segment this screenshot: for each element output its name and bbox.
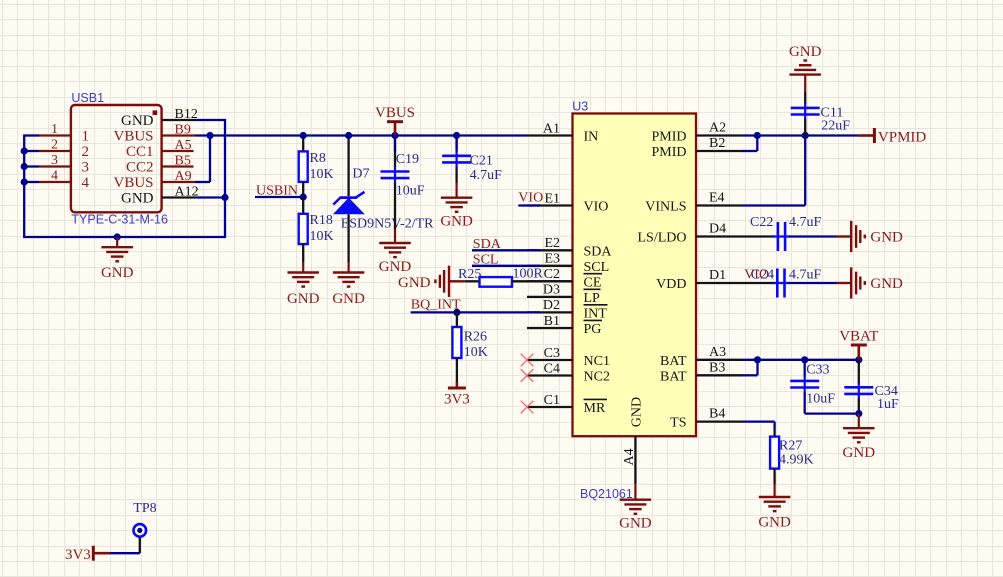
U3 pin name SDA <box>584 244 613 259</box>
net label SCL <box>473 253 499 268</box>
svg-text:U3: U3 <box>572 100 588 114</box>
svg-text:VBUS: VBUS <box>375 105 415 121</box>
svg-text:R27: R27 <box>779 438 802 453</box>
U3 pin A4 <box>622 436 637 484</box>
svg-text:10uF: 10uF <box>396 183 425 198</box>
U3 pin C1 <box>527 393 573 408</box>
wire VBUS rail to C19 <box>394 136 396 152</box>
wire PMID to E4 riser <box>742 136 805 206</box>
svg-text:D1: D1 <box>709 268 726 283</box>
svg-text:INT: INT <box>584 306 608 321</box>
U3 pin name VIO <box>584 200 609 215</box>
svg-text:1: 1 <box>51 122 58 137</box>
ground R27 <box>758 484 791 531</box>
resistor R8 <box>299 136 334 198</box>
svg-text:R25: R25 <box>458 267 481 282</box>
U3 pin A1 <box>527 121 573 136</box>
wire B3 to BAT rail <box>742 360 758 376</box>
svg-text:TS: TS <box>670 416 686 431</box>
net label SDA <box>473 237 502 252</box>
USB1 pin B5 <box>162 154 194 169</box>
svg-text:C33: C33 <box>806 363 829 378</box>
junction BQ_INT R26 <box>453 309 460 316</box>
svg-text:LS/LDO: LS/LDO <box>638 231 687 246</box>
ground D7 <box>332 262 365 307</box>
wire left bus vertical <box>23 136 25 238</box>
svg-text:GND: GND <box>630 397 645 427</box>
svg-text:D4: D4 <box>709 222 726 237</box>
svg-text:MR: MR <box>584 401 606 416</box>
USB1 pin B9 <box>162 123 195 138</box>
no-connect C4 <box>521 369 534 382</box>
ground C22 (right) <box>837 221 904 252</box>
junction B3 BAT rail <box>754 356 761 363</box>
svg-text:3: 3 <box>82 160 90 176</box>
capacitor C33 10uF <box>790 360 835 414</box>
wire pin1 to bus <box>23 134 39 136</box>
U3 pin E3 <box>527 252 573 267</box>
U3 pin name MR <box>584 399 608 416</box>
svg-text:10K: 10K <box>464 345 488 360</box>
svg-text:VPMID: VPMID <box>878 130 927 146</box>
capacitor C19 <box>381 136 425 230</box>
U3 pin name GND rotated <box>630 397 645 427</box>
svg-text:4.7uF: 4.7uF <box>789 215 822 230</box>
svg-text:22uF: 22uF <box>821 119 850 134</box>
svg-text:D2: D2 <box>543 298 560 313</box>
ground C21 <box>440 183 473 229</box>
svg-text:GND: GND <box>440 214 473 230</box>
ground R25 (left) <box>398 266 465 297</box>
capacitor C21 <box>442 136 502 184</box>
U3 pin name VINLS <box>645 200 686 215</box>
svg-text:VINLS: VINLS <box>645 200 686 215</box>
power port 3V3 (TP8) <box>65 546 110 564</box>
svg-text:3: 3 <box>51 153 58 168</box>
USB1 pin A12 <box>162 185 199 200</box>
no-connect C3 <box>521 354 534 367</box>
junction PMID C11 <box>802 132 809 139</box>
svg-text:C4: C4 <box>544 361 560 376</box>
svg-text:10uF: 10uF <box>806 392 835 407</box>
svg-text:VBAT: VBAT <box>839 329 878 345</box>
wire B12 to riser <box>195 119 225 121</box>
U3 pin A3 <box>696 345 742 360</box>
ground C24 (right) <box>837 267 904 298</box>
junction pin4 bus <box>21 178 28 185</box>
U3 pin C2 <box>527 267 573 282</box>
wire VIO to E1 <box>518 204 540 206</box>
USB1 pin 4 <box>39 169 71 184</box>
svg-text:C1: C1 <box>544 393 560 408</box>
svg-text:VIO: VIO <box>518 190 543 205</box>
svg-text:3V3: 3V3 <box>65 547 91 563</box>
wire BQ_INT to D2 <box>411 311 540 313</box>
svg-text:R26: R26 <box>464 330 487 345</box>
junction C34 BAT rail <box>855 356 862 363</box>
svg-text:E1: E1 <box>544 191 560 206</box>
svg-text:GND: GND <box>379 259 412 275</box>
diode D7 ESD9N5V-2/TR <box>333 136 434 263</box>
svg-text:VDD: VDD <box>656 277 686 292</box>
svg-text:CC1: CC1 <box>126 144 154 160</box>
ground C11 (up) <box>789 44 822 91</box>
svg-text:1: 1 <box>82 129 90 145</box>
svg-text:SCL: SCL <box>584 260 610 275</box>
wire A12 to riser <box>196 196 226 198</box>
svg-text:BQ_INT: BQ_INT <box>411 298 461 313</box>
U3 pin B2 <box>696 136 742 151</box>
svg-text:LP: LP <box>584 291 601 306</box>
U3 pin name INT <box>584 305 608 322</box>
svg-text:D7: D7 <box>352 166 369 181</box>
svg-text:A9: A9 <box>175 169 192 184</box>
U3 pin name TS <box>670 416 686 431</box>
svg-text:4.99K: 4.99K <box>779 452 814 467</box>
net label VIO <box>518 190 543 205</box>
power port VBAT <box>839 329 878 360</box>
svg-text:NC2: NC2 <box>584 370 610 385</box>
wire pin2 to bus <box>24 150 39 152</box>
junction B2 A2 rail <box>754 132 761 139</box>
U3 pin name LS/LDO <box>638 231 687 246</box>
USB1 pin name GND (A12) <box>121 191 154 207</box>
USB1 pin name CC2 (B5) <box>126 160 154 176</box>
net label USBIN <box>256 184 298 199</box>
svg-text:GND: GND <box>287 291 320 307</box>
svg-text:4: 4 <box>51 169 58 184</box>
svg-text:C24: C24 <box>751 268 774 283</box>
wire pin4 to bus <box>24 181 39 183</box>
svg-text:100R: 100R <box>513 267 544 282</box>
svg-text:GND: GND <box>101 265 134 281</box>
svg-text:PMID: PMID <box>651 145 686 160</box>
IC U3 designator <box>572 100 588 114</box>
USB1 pin name 3 <box>82 160 90 176</box>
svg-text:B2: B2 <box>709 136 725 151</box>
svg-text:TYPE-C-31-M-16: TYPE-C-31-M-16 <box>71 213 168 227</box>
svg-text:CE: CE <box>584 275 602 290</box>
junction A12 riser <box>221 194 228 201</box>
svg-text:GND: GND <box>789 44 822 60</box>
svg-text:GND: GND <box>121 113 154 129</box>
U3 pin name PMID 1 <box>651 130 686 145</box>
connector USB1 value TYPE-C-31-M-16 <box>71 213 168 227</box>
svg-text:IN: IN <box>584 130 599 145</box>
svg-text:C22: C22 <box>750 215 773 230</box>
USB1 pin name 4 <box>82 175 90 191</box>
ground USB1 <box>101 237 134 281</box>
svg-text:ESD9N5V-2/TR: ESD9N5V-2/TR <box>341 216 434 231</box>
U3 pin D1 <box>696 268 742 283</box>
USB1 pin A9 <box>162 169 195 184</box>
svg-text:A5: A5 <box>175 138 192 153</box>
U3 pin name BAT 1 <box>660 354 687 369</box>
svg-text:B3: B3 <box>709 360 725 375</box>
U3 pin B1 <box>527 314 573 329</box>
svg-text:E2: E2 <box>544 236 560 251</box>
svg-text:TP8: TP8 <box>133 501 156 516</box>
svg-text:4: 4 <box>82 175 90 191</box>
power port VBUS <box>375 105 415 135</box>
wire SCL to E3 <box>472 265 540 267</box>
svg-text:R18: R18 <box>310 213 333 228</box>
wire TP8 to 3V3 <box>110 552 140 554</box>
U3 pin B3 <box>696 360 742 375</box>
wire PMID rail <box>742 134 859 136</box>
junction USBIN R8 R18 <box>300 193 307 200</box>
svg-text:GND: GND <box>843 445 876 461</box>
wire VBUS rail to C21 <box>455 136 457 151</box>
U3 pin name LP <box>584 289 601 306</box>
power port 3V3 (R26) <box>444 382 470 408</box>
junction pin2 bus <box>21 147 28 154</box>
svg-text:10K: 10K <box>310 229 334 244</box>
junction B9 riser <box>206 132 213 139</box>
svg-text:A3: A3 <box>709 345 726 360</box>
svg-text:GND: GND <box>332 291 365 307</box>
resistor R26 <box>452 312 487 382</box>
U3 pin E2 <box>527 236 573 251</box>
connector USB1 body TYPE-C-31-M-16 <box>71 105 162 212</box>
svg-text:PG: PG <box>584 322 602 337</box>
svg-text:A12: A12 <box>175 185 199 200</box>
USB1 pin name GND (B12) <box>121 113 154 129</box>
junction pin3 bus <box>21 163 28 170</box>
svg-text:A4: A4 <box>622 448 637 465</box>
wire USBIN <box>255 196 303 198</box>
svg-text:GND: GND <box>398 275 431 291</box>
svg-text:10K: 10K <box>310 167 334 182</box>
wire C33 bottom to C34 bottom <box>805 412 859 414</box>
svg-text:D3: D3 <box>543 283 560 298</box>
capacitor C22 4.7uF <box>742 215 837 251</box>
wire B2 to A2 rail <box>742 136 757 152</box>
U3 pin name BAT 2 <box>660 369 687 384</box>
svg-text:4.7uF: 4.7uF <box>789 268 822 283</box>
svg-text:B4: B4 <box>709 407 725 422</box>
capacitor C34 1uF <box>844 360 899 414</box>
svg-text:A2: A2 <box>709 121 726 136</box>
junction R8 VBUS rail <box>300 132 307 139</box>
USB1 pin name CC1 (A5) <box>126 144 154 160</box>
wire VBUS rail B9 to U3 IN <box>195 134 527 136</box>
svg-text:B5: B5 <box>175 154 191 169</box>
U3 pin D2 <box>527 298 573 313</box>
net label BQ_INT <box>411 298 461 313</box>
USB1 pin B12 <box>162 107 198 122</box>
ground C33 C34 <box>843 414 876 462</box>
svg-text:GND: GND <box>619 516 652 532</box>
IC U3 value BQ21061 <box>580 487 633 501</box>
svg-text:PMID: PMID <box>651 130 686 145</box>
U3 pin name CE <box>584 274 603 291</box>
power port VPMID <box>859 128 927 146</box>
wire BAT rail <box>742 359 859 361</box>
U3 pin name NC2 <box>584 370 610 385</box>
svg-text:USB1: USB1 <box>71 91 104 105</box>
svg-text:B1: B1 <box>544 314 560 329</box>
resistor R25 100R <box>458 267 573 287</box>
svg-text:C3: C3 <box>544 346 560 361</box>
svg-text:4.7uF: 4.7uF <box>470 168 503 183</box>
junction C33 BAT rail <box>801 356 808 363</box>
no-connect C1 <box>521 401 534 414</box>
junction C19 VBUS rail <box>391 132 398 139</box>
U3 pin D3 <box>527 283 573 298</box>
U3 pin D4 <box>696 222 742 237</box>
U3 pin name IN <box>584 130 599 145</box>
wire pin3 to bus <box>24 165 39 167</box>
U3 pin B4 <box>696 407 742 422</box>
resistor R27 4.99K <box>770 430 814 484</box>
USB1 pin 1 <box>39 122 71 137</box>
svg-text:C2: C2 <box>544 267 560 282</box>
ground C19 <box>379 229 412 275</box>
svg-text:C19: C19 <box>396 152 419 167</box>
U3 pin name SCL <box>584 260 610 275</box>
svg-text:C21: C21 <box>470 153 493 168</box>
U3 pin C3 <box>527 346 573 361</box>
svg-text:B9: B9 <box>175 123 191 138</box>
junction C21 VBUS rail <box>453 132 460 139</box>
capacitor C11 22uF <box>791 91 851 135</box>
USB1 pin name VBUS (B9) <box>113 129 153 145</box>
U3 pin C4 <box>527 361 573 376</box>
U3 pin E4 <box>696 191 742 206</box>
wire GND riser vertical <box>224 119 226 237</box>
junction C34 bottom <box>855 410 862 417</box>
USB1 pin name 2 <box>82 144 90 160</box>
svg-text:1uF: 1uF <box>877 397 899 412</box>
wire bottom ground rail <box>23 236 226 238</box>
U3 pin name VDD <box>656 277 686 292</box>
svg-text:BAT: BAT <box>660 354 687 369</box>
svg-text:GND: GND <box>121 191 154 207</box>
svg-text:GND: GND <box>758 515 791 531</box>
svg-text:R8: R8 <box>310 151 326 166</box>
wire B4 to R27 <box>742 422 775 430</box>
U3 pin name PG <box>584 320 603 337</box>
svg-text:CC2: CC2 <box>126 160 154 176</box>
svg-text:2: 2 <box>82 144 90 160</box>
svg-text:2: 2 <box>51 138 58 153</box>
IC U3 body BQ21061 <box>573 114 697 437</box>
svg-text:E4: E4 <box>709 191 725 206</box>
svg-text:VBUS: VBUS <box>113 175 153 191</box>
connector USB1 designator <box>71 91 104 105</box>
ground R18 <box>287 262 320 307</box>
U3 pin name PMID 2 <box>651 145 686 160</box>
wire A9 to riser <box>195 181 210 183</box>
USB1 pin name VBUS (A9) <box>113 175 153 191</box>
svg-text:E3: E3 <box>544 252 560 267</box>
USB1 pin A5 <box>162 138 194 153</box>
USB1 pin 2 <box>39 138 71 153</box>
U3 pin E1 <box>527 191 573 206</box>
svg-text:3V3: 3V3 <box>444 392 470 408</box>
USB1 pin 3 <box>39 153 71 168</box>
testpoint TP8 <box>134 524 147 553</box>
U3 pin name NC1 <box>584 354 610 369</box>
resistor R18 <box>299 197 334 262</box>
testpoint TP8 designator <box>133 501 156 516</box>
ground U3 A4 <box>619 484 652 531</box>
svg-text:A1: A1 <box>543 121 560 136</box>
capacitor C24 4.7uF <box>742 268 837 298</box>
wire SDA to E2 <box>472 249 540 251</box>
wire A9-B9 riser <box>209 136 211 183</box>
U3 pin A2 <box>696 121 742 136</box>
svg-text:VBUS: VBUS <box>113 129 153 145</box>
svg-text:GND: GND <box>870 229 903 245</box>
svg-text:BAT: BAT <box>660 369 687 384</box>
svg-text:GND: GND <box>870 276 903 292</box>
svg-text:SDA: SDA <box>584 244 613 259</box>
junction ground rail <box>114 233 121 240</box>
svg-text:NC1: NC1 <box>584 354 610 369</box>
junction D7 VBUS rail <box>345 132 352 139</box>
svg-text:VIO: VIO <box>584 200 609 215</box>
USB1 pin name 1 <box>82 129 90 145</box>
svg-text:B12: B12 <box>175 107 198 122</box>
net label VIO (C24) <box>744 268 769 283</box>
